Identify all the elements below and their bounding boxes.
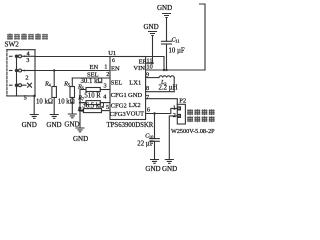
node: C10 junction on VOUT (153, 112, 155, 114)
svg-text:5: 5 (106, 104, 109, 111)
svg-text:30.1 kΩ: 30.1 kΩ (81, 78, 103, 85)
svg-text:22 µF: 22 µF (137, 140, 153, 147)
svg-text:CFG1: CFG1 (111, 92, 127, 99)
switch SW2 pole 3 (no-connect X) (10, 83, 32, 87)
ground (P2 pin2) (165, 160, 173, 164)
capacitor C10 22uF (150, 114, 160, 160)
op-amp U1 TPS63900 box (110, 57, 146, 120)
svg-text:8: 8 (146, 85, 149, 92)
svg-text:7: 7 (146, 94, 149, 101)
ground (CFG rail) (76, 128, 84, 132)
node: top-line drop junction (163, 69, 165, 71)
switch SW2 dashed box (7, 50, 35, 96)
capacitor C11 10uF (162, 18, 172, 71)
node: SW2 pin5 junction on box bottom (33, 95, 36, 98)
svg-text:9: 9 (146, 72, 149, 79)
svg-text:SEL: SEL (111, 80, 123, 87)
svg-text:GND: GND (73, 135, 88, 143)
svg-text:GND: GND (162, 165, 177, 173)
svg-text:GND: GND (22, 121, 37, 129)
svg-text:10 kΩ: 10 kΩ (36, 98, 53, 105)
svg-text:CFG3: CFG3 (110, 111, 126, 118)
ground (C10) (151, 160, 159, 164)
inductor L2 2.2uH (146, 76, 175, 92)
node: EP junction (151, 62, 153, 64)
svg-text:10 µF: 10 µF (169, 47, 185, 54)
svg-text:5: 5 (24, 95, 27, 102)
node: rail-R7 junction (79, 101, 81, 103)
svg-text:EN: EN (90, 64, 99, 71)
svg-text:GND: GND (128, 92, 142, 99)
wire: CFG divider common rail (79, 90, 81, 129)
svg-text:2.2 µH: 2.2 µH (159, 85, 178, 92)
svg-text:EN: EN (111, 66, 120, 73)
svg-text:TPS63900DSKR: TPS63900DSKR (107, 122, 154, 129)
wire: VIN line pin10 (146, 69, 205, 71)
node: C11 drop junction (165, 69, 167, 71)
svg-text:GND: GND (157, 4, 172, 12)
svg-text:LX1: LX1 (129, 79, 141, 86)
ground (R5) (68, 114, 76, 118)
svg-text:LX2: LX2 (129, 102, 141, 109)
svg-text:1: 1 (104, 64, 107, 71)
svg-text:CFG2: CFG2 (111, 103, 127, 110)
connector P2 box (177, 104, 185, 124)
svg-text:6: 6 (112, 58, 115, 64)
svg-text:3: 3 (104, 83, 107, 90)
svg-text:GND: GND (145, 165, 160, 173)
node: R4 junction on EN line (53, 69, 55, 71)
resistor R5 10k (vertical) (70, 78, 75, 114)
note 电容负载/稳压输出 (drawn strokes) (187, 109, 214, 122)
wire: EP ground drop (152, 36, 154, 64)
switch SW2 pole 2 (pin 2) (10, 69, 36, 72)
wire: SW2 pin5 to ground (33, 96, 35, 115)
svg-text:36.5 kΩ: 36.5 kΩ (82, 102, 104, 109)
svg-text:11: 11 (175, 39, 179, 44)
title 稳压输出开关 (drawn strokes) (7, 34, 47, 40)
ground (SW2 pin5) (30, 115, 38, 119)
svg-text:P2: P2 (179, 98, 186, 105)
wire: right-edge VIN riser (200, 4, 206, 70)
wire: GND pin7 to P2 (146, 99, 178, 105)
resistor R6 30.1k (horizontal) (80, 88, 110, 92)
svg-text:VIN: VIN (133, 65, 145, 72)
svg-text:3: 3 (26, 57, 29, 64)
wire: SW2 common vertical (16, 56, 18, 96)
resistor R7 510R (horizontal) (80, 101, 110, 105)
svg-text:10: 10 (147, 64, 153, 71)
wire: EP pin11 stub (146, 62, 153, 64)
svg-text:GND: GND (46, 121, 61, 129)
svg-text:510 R: 510 R (84, 92, 101, 99)
switch SW2 pole 1 (pins 4/3) (10, 55, 36, 58)
wire: SEL line (R5 to U1 pin2) (72, 77, 110, 79)
svg-text:SW2: SW2 (5, 41, 20, 49)
wire: row1 / pin4 to VIN drop (also U1 top edge) (35, 56, 164, 58)
svg-text:2: 2 (178, 114, 180, 118)
ground (top, above C11) (163, 14, 171, 18)
ground (top, EP) (149, 32, 157, 36)
resistor R8 36.5k (horizontal) (80, 109, 110, 113)
resistor R4 10k (vertical) (52, 71, 57, 115)
svg-text:GND: GND (144, 23, 159, 31)
svg-text:U1: U1 (108, 50, 116, 57)
svg-text:VOUT: VOUT (126, 111, 144, 118)
wire: P2 pin2 to ground (169, 116, 177, 160)
svg-text:W2500V-5.08-2P: W2500V-5.08-2P (171, 128, 215, 135)
svg-text:6: 6 (147, 106, 150, 113)
svg-text:GND: GND (64, 120, 79, 128)
svg-text:2: 2 (173, 112, 176, 119)
svg-text:1: 1 (178, 107, 180, 111)
svg-text:2: 2 (25, 75, 28, 82)
node: rail-R8 junction (79, 109, 81, 111)
ground (R4) (50, 115, 58, 119)
svg-text:1: 1 (173, 105, 176, 112)
svg-text:10 kΩ: 10 kΩ (58, 98, 75, 105)
svg-text:2: 2 (106, 71, 109, 78)
wire: EN line (SW2 row2 to U1 pin1) (35, 70, 110, 72)
wire: VOUT pin6 line (146, 108, 178, 113)
wire: drop from top line to VIN (163, 57, 165, 71)
